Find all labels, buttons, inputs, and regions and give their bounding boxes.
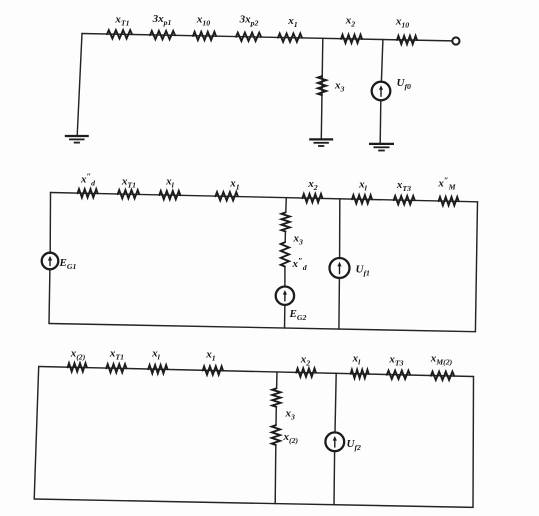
resistor x1 <box>278 34 302 42</box>
svg-text:xT3: xT3 <box>396 179 411 193</box>
svg-text:xl: xl <box>358 179 368 193</box>
svg-text:x10: x10 <box>395 16 409 30</box>
resistor x''d (shunt, circuit 2) <box>281 242 289 266</box>
resistor x2 (circuit 2) <box>302 194 322 202</box>
wire: x3 shunt branch <box>321 38 323 139</box>
wire: circuit-3 shunt upper <box>276 372 278 388</box>
svg-text:xT3: xT3 <box>388 354 403 368</box>
resistor x(2) (shunt, circuit 3) <box>272 425 280 445</box>
wire: circuit-2 left vertical lower <box>48 269 51 323</box>
resistor 3xp2 <box>236 33 261 41</box>
svg-text:xT1: xT1 <box>114 14 129 28</box>
svg-text:x(2): x(2) <box>70 348 86 362</box>
svg-text:x1: x1 <box>205 349 216 363</box>
svg-text:xM(2): xM(2) <box>430 353 453 367</box>
svg-text:x1: x1 <box>229 178 240 192</box>
source Uf1 <box>330 258 350 278</box>
svg-text:x2: x2 <box>300 354 311 368</box>
wire: circuit-2 shunt mid <box>284 232 286 243</box>
resistor x2 (circuit 3) <box>296 368 316 376</box>
wire: Uf0 branch lower <box>379 100 382 143</box>
svg-text:x3: x3 <box>334 80 345 94</box>
source EG1 <box>42 253 59 270</box>
resistor x3 (circuit 3) <box>272 388 280 406</box>
svg-text:x3: x3 <box>285 408 296 422</box>
source Uf0 <box>372 82 391 101</box>
wire: circuit-3 shunt mid <box>275 407 277 425</box>
resistor xT1 <box>107 30 132 38</box>
resistor xl (circuit 3 left) <box>148 365 167 373</box>
resistor x2 <box>341 35 362 43</box>
resistor xl (circuit 2 right) <box>352 195 372 203</box>
wire: Uf2 branch upper <box>335 373 336 432</box>
wire: circuit-3 top bus <box>39 367 474 377</box>
svg-text:EG2: EG2 <box>289 308 307 322</box>
svg-text:x″d: x″d <box>292 255 307 272</box>
wire: circuit-1 left vertical drop <box>77 34 82 136</box>
wire: circuit-3 left vertical <box>34 367 39 500</box>
wire: Uf0 branch upper <box>381 40 383 82</box>
svg-text:xl: xl <box>352 353 362 367</box>
wire: circuit-2 right vertical <box>475 202 477 332</box>
ground (left, circuit 1) <box>65 135 89 137</box>
svg-text:Uf1: Uf1 <box>356 264 371 278</box>
wire: Uf1 branch lower <box>338 278 341 329</box>
wire: circuit-3 shunt lower <box>274 445 277 504</box>
svg-text:x3: x3 <box>293 233 304 247</box>
resistor x10 (second) <box>397 36 417 44</box>
wire: circuit-2 bottom bus <box>49 324 475 332</box>
svg-text:x″d: x″d <box>80 171 95 188</box>
wire: Uf2 branch lower <box>333 451 336 505</box>
svg-text:Uf2: Uf2 <box>347 438 362 452</box>
terminal (open circle) <box>452 37 459 44</box>
resistor x1 (circuit 3) <box>203 366 223 374</box>
resistor xl (circuit 2 left) <box>159 191 180 199</box>
resistor xl (circuit 3 right) <box>351 370 369 378</box>
resistor xT1 (circuit 3) <box>106 364 126 372</box>
source EG2 <box>276 287 294 305</box>
svg-text:xT1: xT1 <box>121 176 136 190</box>
resistor x''d <box>78 189 98 197</box>
svg-text:EG1: EG1 <box>59 257 77 271</box>
resistor x1 (circuit 2) <box>215 192 238 200</box>
svg-text:x(2): x(2) <box>283 431 299 445</box>
svg-text:x10: x10 <box>196 14 210 28</box>
wire: circuit-2 shunt upper <box>285 198 288 213</box>
resistor x3 (circuit 2) <box>281 212 289 231</box>
resistor x3 (shunt) <box>318 76 326 95</box>
resistor xT3 (circuit 2) <box>394 196 415 204</box>
wire: circuit-2 top bus <box>51 193 478 202</box>
resistor xT1 (circuit 2) <box>118 190 140 198</box>
wire: circuit-2 EG2 to bottom <box>284 305 286 328</box>
resistor xM(2) <box>431 372 454 380</box>
svg-text:x1: x1 <box>287 15 298 29</box>
svg-text:xl: xl <box>165 176 175 190</box>
svg-text:x2: x2 <box>307 178 318 192</box>
resistor x(2) (circuit 3 left) <box>68 363 87 371</box>
wire: Uf1 branch upper <box>339 199 341 258</box>
resistor x''M <box>439 197 459 205</box>
wire: circuit-3 right vertical <box>472 377 475 508</box>
source Uf2 <box>325 432 344 451</box>
ground (under x3) <box>309 138 333 140</box>
svg-text:xl: xl <box>151 348 161 362</box>
svg-text:Uf0: Uf0 <box>397 77 412 91</box>
wire: circuit-2 left vertical upper <box>49 193 51 253</box>
resistor xT3 (circuit 3) <box>387 371 410 379</box>
svg-text:3xp2: 3xp2 <box>239 14 259 28</box>
svg-text:x2: x2 <box>345 15 356 29</box>
wire: circuit-3 bottom bus <box>34 499 473 507</box>
wire: circuit-1 top bus <box>82 34 452 41</box>
svg-text:xT1: xT1 <box>109 348 124 362</box>
wire: circuit-2 shunt to EG2 <box>284 267 286 287</box>
ground (under Uf0) <box>369 143 394 145</box>
svg-text:3xp1: 3xp1 <box>152 13 172 27</box>
svg-text:x″M: x″M <box>437 175 456 192</box>
resistor x10 <box>193 32 216 40</box>
resistor 3xp1 <box>150 31 175 39</box>
